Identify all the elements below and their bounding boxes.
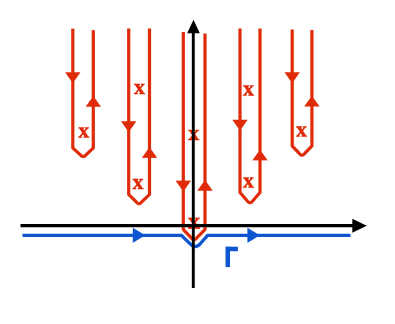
- svg-text:x: x: [78, 117, 89, 142]
- svg-text:x: x: [243, 75, 254, 100]
- svg-text:x: x: [296, 116, 307, 141]
- svg-text:x: x: [134, 74, 145, 99]
- svg-text:x: x: [243, 167, 254, 192]
- svg-text:x: x: [133, 169, 144, 194]
